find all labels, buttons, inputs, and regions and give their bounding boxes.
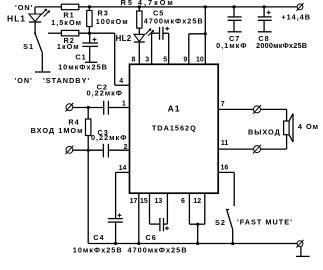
svg-text:8: 8 (132, 56, 136, 63)
svg-text:4700мкФх25В: 4700мкФх25В (144, 16, 204, 25)
svg-text:1кОм: 1кОм (57, 42, 80, 51)
svg-text:10мкФх25В: 10мкФх25В (58, 63, 108, 72)
svg-text:HL2: HL2 (116, 34, 132, 43)
svg-text:6: 6 (181, 198, 185, 205)
svg-text:+14,4В: +14,4В (281, 12, 311, 21)
svg-text:S1: S1 (23, 42, 34, 51)
svg-text:1МОм: 1МОм (58, 126, 83, 135)
svg-text:3: 3 (145, 56, 149, 63)
svg-text:A1: A1 (168, 104, 181, 114)
svg-text:ВХОД: ВХОД (31, 126, 55, 135)
svg-text:15: 15 (140, 198, 148, 205)
svg-text:1: 1 (122, 101, 126, 108)
svg-text:4700мкФх25В: 4700мкФх25В (128, 245, 188, 254)
svg-text:10: 10 (196, 57, 204, 64)
svg-text:C6: C6 (146, 233, 157, 242)
svg-text:'ON': 'ON' (14, 76, 32, 85)
svg-text:100кОм: 100кОм (96, 17, 129, 26)
svg-text:ВЫХОД: ВЫХОД (248, 128, 281, 137)
svg-text:9: 9 (183, 56, 187, 63)
svg-text:12: 12 (193, 198, 201, 205)
svg-text:2000мкФх25В: 2000мкФх25В (256, 41, 307, 50)
svg-text:S2: S2 (215, 218, 226, 227)
svg-text:7: 7 (221, 101, 225, 108)
svg-text:16: 16 (221, 164, 229, 171)
svg-text:1,5кОм: 1,5кОм (51, 18, 82, 27)
svg-text:10мкФх25В: 10мкФх25В (73, 245, 123, 254)
svg-text:2: 2 (124, 144, 128, 151)
svg-text:'ON': 'ON' (15, 3, 33, 12)
svg-text:TDA1562Q: TDA1562Q (152, 123, 197, 132)
svg-text:HL1: HL1 (7, 14, 26, 24)
svg-text:C4: C4 (93, 233, 104, 242)
svg-text:0,1мкФ: 0,1мкФ (216, 41, 247, 50)
svg-text:0,22мкФ: 0,22мкФ (87, 88, 123, 97)
svg-text:R5 4,7кОм: R5 4,7кОм (121, 0, 175, 7)
svg-text:5: 5 (163, 56, 167, 63)
svg-text:14: 14 (119, 165, 127, 172)
svg-text:11: 11 (221, 140, 229, 147)
svg-text:'STANDBY': 'STANDBY' (43, 76, 90, 85)
svg-text:0,22мкФ: 0,22мкФ (91, 133, 127, 142)
svg-text:C1: C1 (75, 52, 86, 61)
svg-text:13: 13 (155, 198, 163, 205)
svg-text:4: 4 (119, 78, 123, 85)
svg-text:'FAST MUTE': 'FAST MUTE' (237, 217, 293, 226)
svg-text:4 Ом: 4 Ом (298, 122, 319, 131)
svg-text:17: 17 (130, 198, 138, 205)
